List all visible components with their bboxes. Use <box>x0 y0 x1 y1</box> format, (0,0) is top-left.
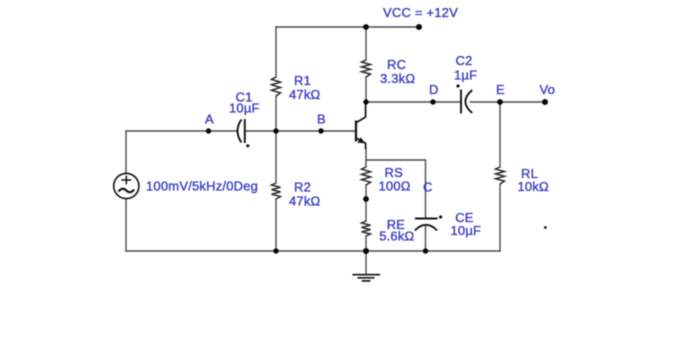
svg-text:10µF: 10µF <box>229 101 260 116</box>
svg-text:47kΩ: 47kΩ <box>289 87 321 102</box>
svg-text:C2: C2 <box>456 53 473 68</box>
svg-text:10µF: 10µF <box>451 223 482 238</box>
svg-text:100Ω: 100Ω <box>379 178 411 193</box>
svg-text:A: A <box>205 111 214 126</box>
svg-text:R2: R2 <box>294 180 311 195</box>
svg-text:D: D <box>429 82 439 97</box>
svg-text:RC: RC <box>387 57 406 72</box>
svg-text:1µF: 1µF <box>454 67 477 82</box>
svg-text:E: E <box>496 82 505 97</box>
svg-text:10kΩ: 10kΩ <box>518 179 550 194</box>
svg-text:C: C <box>423 179 433 194</box>
svg-text:R1: R1 <box>294 73 311 88</box>
svg-text:Vo: Vo <box>540 82 556 97</box>
svg-text:3.3kΩ: 3.3kΩ <box>380 71 415 86</box>
svg-text:47kΩ: 47kΩ <box>289 193 321 208</box>
svg-text:5.6kΩ: 5.6kΩ <box>379 229 414 244</box>
svg-text:B: B <box>317 111 326 126</box>
svg-text:100mV/5kHz/0Deg: 100mV/5kHz/0Deg <box>146 178 258 193</box>
svg-text:VCC = +12V: VCC = +12V <box>383 5 458 20</box>
